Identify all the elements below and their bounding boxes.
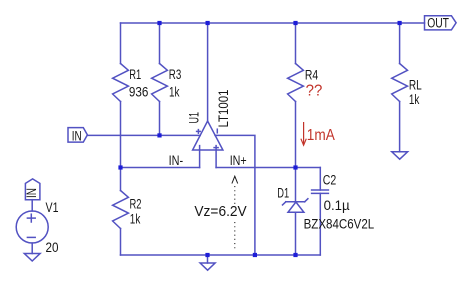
svg-text:IN-: IN- [169,153,184,168]
label R1 value 936 [129,84,149,99]
label OUT flag text [427,16,449,31]
junction top rail / op-amp output [206,21,210,25]
label IN+ pin [230,153,247,168]
resistor R2 [113,191,129,229]
label R3 [169,67,182,82]
svg-text:20: 20 [46,240,59,255]
wire D1 anode [295,212,297,255]
annotation Vz arrow [232,176,238,249]
net flag IN [68,128,87,143]
svg-text:1k: 1k [169,84,180,99]
svg-text:V1: V1 [46,200,59,215]
label R3 value 1k [169,84,180,99]
junction IN net / R3 [157,133,161,137]
wire IN net [87,134,200,136]
label IN flag text [72,128,82,143]
svg-text:OUT: OUT [427,16,449,31]
op-amp U1 [193,121,223,150]
resistor R3 [152,64,168,102]
wire op-amp V- supply [215,135,255,255]
label 1mA [307,127,336,144]
svg-text:R1: R1 [129,67,141,82]
wire R1 top [120,23,122,64]
wire bottom rail [121,254,321,256]
svg-text:1k: 1k [409,92,420,107]
label V1 [46,200,59,215]
junction IN- node [118,165,122,169]
wire V1 top [31,200,33,211]
junction top rail / R4 [293,21,297,25]
ground bottom rail [200,263,215,270]
junction bottom rail / V- supply [253,253,257,257]
label C2 [323,173,337,188]
label Vz=6.2V [194,204,247,220]
label R4 [305,68,319,83]
svg-text:U1: U1 [186,112,201,124]
svg-text:IN: IN [24,188,39,198]
label R2 value 1k [130,212,141,227]
wire IN- node to R2 [120,168,122,191]
junction bottom rail / ground [205,253,209,257]
label V1 value 20 [46,240,59,255]
wire op-amp IN- pin [199,150,201,168]
label D1 [277,185,289,200]
resistor RL [392,64,408,102]
label RL [409,78,422,93]
wire RL top [399,23,401,64]
wire op-amp output [207,23,209,121]
svg-text:LT1001: LT1001 [216,90,231,128]
junction bottom rail / D1 [293,253,297,257]
resistor R1 [113,64,129,102]
wire ground stem bottom rail [207,255,209,263]
wire C2 bottom [319,193,321,255]
wire R3 top [159,23,161,64]
svg-text:1k: 1k [130,212,141,227]
wire RL to ground [399,102,401,152]
wire IN+ net [216,167,320,169]
label IN- pin [169,153,184,168]
label IN flag text at V1 [24,188,39,198]
svg-text:0.1µ: 0.1µ [324,197,350,213]
svg-text:D1: D1 [277,185,289,200]
wire top rail [121,22,425,24]
net flag IN at V1 [25,179,40,200]
wire R1 to IN- node [120,102,122,168]
label R1 [129,67,141,82]
svg-text:936: 936 [129,84,149,99]
label R2 [130,197,142,212]
svg-text:??: ?? [306,83,323,100]
svg-text:RL: RL [409,78,422,93]
svg-text:BZX84C6V2L: BZX84C6V2L [304,215,375,231]
junction IN+ node / R4 D1 [293,165,297,169]
capacitor C2 [312,190,329,193]
junction top rail / R3 [157,21,161,25]
svg-text:IN: IN [72,128,82,143]
svg-text:1mA: 1mA [307,127,336,144]
wire R4 top [295,23,297,64]
label RL value 1k [409,92,420,107]
zener diode D1 [283,199,308,213]
svg-text:R2: R2 [130,197,142,212]
ground V1 [24,254,40,262]
net flag OUT [425,16,457,30]
wire R2 to bottom rail [120,229,122,256]
svg-text:IN+: IN+ [230,153,247,168]
annotation current arrow 1mA [301,122,306,145]
wire C2 top [319,168,321,191]
wire D1 cathode [295,168,297,203]
wire IN- net [121,167,200,169]
voltage source V1 [16,211,48,243]
resistor R4 [288,64,304,102]
label C2 value 0.1u [324,197,350,213]
label U1 [186,112,201,124]
label R4 value ?? [306,83,323,100]
wire R4 to IN+ node [295,102,297,168]
svg-text:C2: C2 [323,173,337,188]
svg-text:R3: R3 [169,67,182,82]
wire R3 to IN net [159,102,161,136]
svg-text:R4: R4 [305,68,319,83]
label U1 value LT1001 [216,90,231,128]
svg-text:Vz=6.2V: Vz=6.2V [194,204,247,220]
label D1 value BZX84C6V2L [304,215,375,231]
ground RL [392,152,408,159]
wire V1 bottom [31,243,33,254]
junction top rail / RL [398,21,402,25]
wire op-amp IN+ pin [215,150,217,168]
